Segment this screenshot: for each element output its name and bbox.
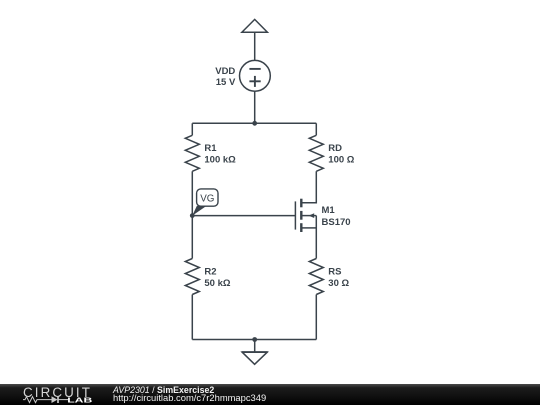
wire: arrow to source top [254, 32, 256, 60]
junction: VG node [190, 213, 195, 218]
wire: R1 to VG node to R2 [191, 171, 193, 258]
resistor R1 [185, 135, 199, 171]
svg-text:R2: R2 [204, 266, 216, 277]
ground [242, 340, 268, 365]
svg-text:100 Ω: 100 Ω [328, 155, 354, 166]
wire: R2 to bottom rail [191, 295, 193, 340]
power flag VDD (up arrow) [242, 19, 268, 32]
svg-text:LAB: LAB [67, 397, 92, 405]
resistor RS [309, 259, 323, 295]
CircuitLab logo [22, 385, 100, 405]
wire: bottom rail [192, 339, 316, 341]
svg-text:50 kΩ: 50 kΩ [204, 278, 230, 289]
wire: mosfet source to RS [315, 216, 317, 259]
wire: RS to bottom rail [315, 295, 317, 340]
wire: VG node to gate [192, 215, 295, 217]
voltage source V1 VDD [240, 60, 271, 91]
svg-text:30 Ω: 30 Ω [328, 278, 349, 289]
mosfet M1 [295, 199, 316, 232]
svg-text:BS170: BS170 [322, 217, 351, 228]
svg-text:VG: VG [200, 193, 214, 204]
wire: source bottom to top rail [254, 91, 256, 123]
svg-text:M1: M1 [322, 205, 336, 216]
footer bar [0, 384, 540, 405]
svg-text:RD: RD [328, 143, 342, 154]
resistor R2 [185, 259, 199, 295]
wire: RD to drain [302, 171, 317, 202]
wire: top rail to RD [315, 123, 317, 135]
resistor RD [309, 135, 323, 171]
svg-text:100 kΩ: 100 kΩ [204, 155, 236, 166]
svg-text:VDD: VDD [215, 66, 235, 77]
junction: top rail node [252, 121, 257, 126]
svg-text:R1: R1 [204, 143, 217, 154]
junction: ground node [252, 337, 257, 342]
wire: top rail [192, 122, 316, 124]
svg-text:RS: RS [328, 266, 341, 277]
node VG callout [192, 189, 218, 216]
wire: top rail to R1 [191, 123, 193, 135]
svg-text:15 V: 15 V [216, 77, 236, 88]
footer text [113, 386, 266, 403]
